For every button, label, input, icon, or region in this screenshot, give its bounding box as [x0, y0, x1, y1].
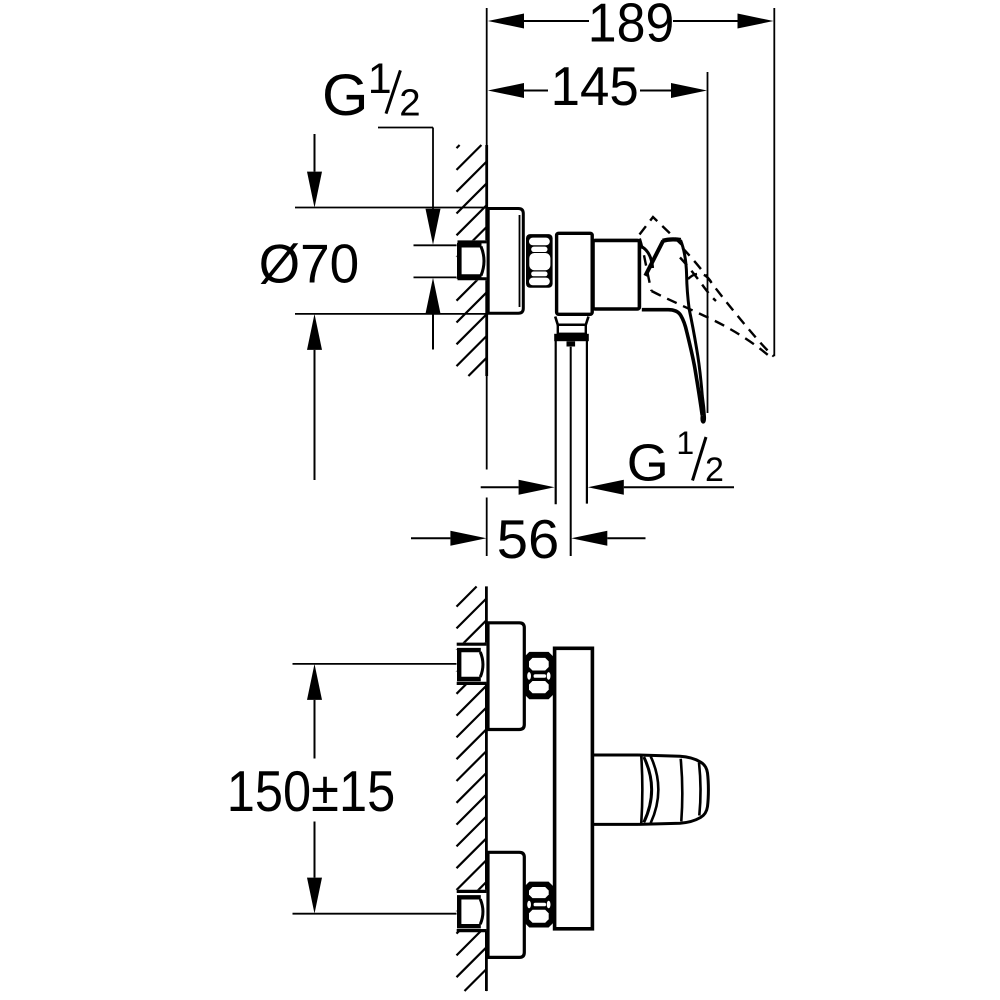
svg-text:2: 2 [705, 451, 724, 489]
inlet pipe behind wall (top view) [457, 240, 487, 280]
handle neck (bottom view) [593, 755, 639, 824]
svg-text:Ø70: Ø70 [259, 233, 359, 295]
dimension O70 [259, 134, 488, 480]
lever handle dashed alternate position (top view) [640, 217, 774, 356]
upper wall union pipe (bottom view) [457, 643, 487, 684]
extension line: 145 right [707, 72, 709, 413]
label G 1/2 (top inlet) [322, 55, 441, 245]
lower wall union nut (bottom view) [459, 897, 483, 926]
handle knob end (bottom view) [639, 755, 709, 824]
dome left edge [645, 241, 663, 276]
escutcheon shading line (top view) [519, 215, 521, 307]
wall hatching (bottom view) [457, 587, 487, 992]
upper wall union nut (bottom view) [459, 650, 483, 679]
svg-text:145: 145 [551, 55, 639, 117]
svg-text:189: 189 [588, 0, 675, 54]
upper hex nut (bottom view) [524, 652, 553, 699]
outlet pipe G1/2 (top view) [556, 341, 587, 556]
wall hatching (top view) [457, 145, 487, 376]
leader to inlet [378, 127, 433, 129]
svg-text:2: 2 [399, 82, 420, 125]
dome right side + blade outer edge [681, 240, 705, 422]
hex union nut (top view) [526, 234, 553, 288]
lever handle solid (top view) [642, 239, 705, 422]
dimension arrows G1/2 outlet [481, 480, 734, 495]
wall face line (top view) [485, 145, 488, 376]
dimension 150+-15 [227, 664, 457, 914]
wall face line (bottom view) [485, 586, 488, 991]
label G 1/2 (outlet) [627, 425, 724, 493]
svg-text:1: 1 [368, 55, 392, 103]
svg-text:G: G [627, 435, 669, 493]
svg-text:56: 56 [497, 508, 560, 570]
lower hex nut (bottom view) [524, 882, 553, 928]
extension line: 189 right [773, 8, 775, 356]
dimension 56 [411, 508, 646, 570]
extension line: wall face / dim origin [486, 8, 488, 145]
G 1/2 inlet extension lines and arrow [414, 245, 458, 349]
cartridge housing (top view) [593, 240, 639, 309]
svg-text:G: G [322, 63, 369, 128]
outlet collar below body (top view) [554, 317, 589, 342]
svg-text:150±15: 150±15 [227, 760, 395, 824]
escutcheon (top view) [488, 209, 523, 314]
svg-text:1: 1 [676, 425, 694, 461]
valve body (top view) [557, 233, 593, 314]
lower escutcheon (bottom view) [488, 852, 524, 957]
dimension 189 [488, 0, 774, 54]
faucet body (bottom view) [555, 648, 593, 929]
dome top [663, 239, 681, 240]
dome base arc [642, 247, 653, 268]
union nut behind wall (top view) [459, 245, 484, 276]
handle underside + blade inner edge [642, 310, 702, 416]
upper escutcheon (bottom view) [488, 623, 524, 730]
dimension 145 [488, 55, 707, 117]
lower wall union pipe (bottom view) [457, 890, 487, 931]
